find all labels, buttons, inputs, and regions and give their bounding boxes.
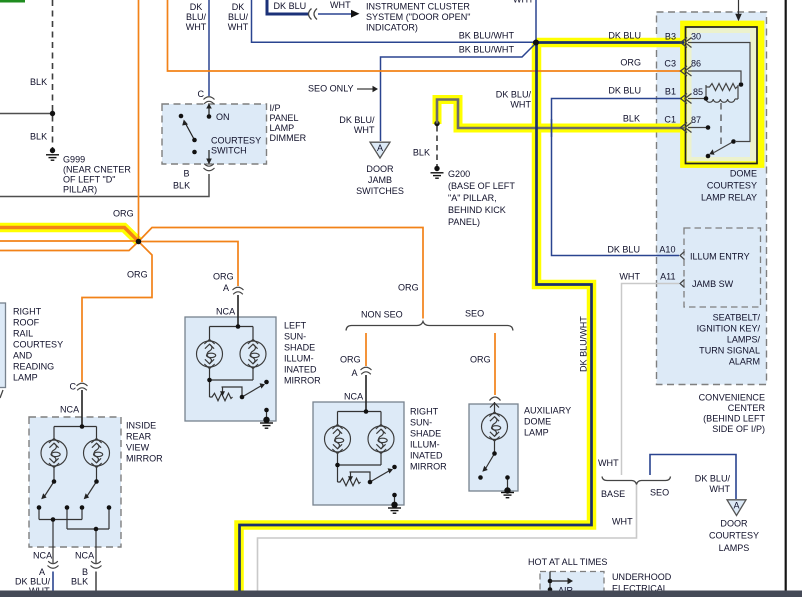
svg-text:WHT: WHT	[598, 458, 619, 468]
wire B1 overdraw at yellow crossing	[551, 119, 553, 137]
svg-text:DOOR: DOOR	[720, 519, 748, 529]
svg-text:INDICATOR): INDICATOR)	[366, 23, 418, 33]
svg-text:A10: A10	[659, 245, 675, 255]
svg-text:WHT: WHT	[228, 22, 249, 32]
svg-text:NON SEO: NON SEO	[361, 310, 403, 320]
svg-text:SHADE: SHADE	[410, 429, 441, 439]
inside mirror: contact drops	[38, 509, 40, 520]
svg-text:COURTESY: COURTESY	[211, 136, 261, 146]
svg-text:B: B	[82, 567, 88, 577]
svg-text:LEFT: LEFT	[284, 321, 307, 331]
svg-text:SYSTEM ("DOOR OPEN": SYSTEM ("DOOR OPEN"	[366, 12, 470, 22]
svg-text:RIGHT: RIGHT	[410, 407, 439, 417]
svg-text:LAMPS/: LAMPS/	[727, 335, 761, 345]
right roof rail lamp box (cut at left edge)	[0, 303, 6, 388]
inside mirror: lamp stems	[53, 467, 55, 482]
svg-text:NCA: NCA	[60, 405, 80, 415]
svg-text:SWITCHES: SWITCHES	[356, 186, 404, 196]
svg-text:UNDERHOOD: UNDERHOOD	[612, 572, 672, 582]
courtesy switch: pivot dots	[192, 138, 197, 143]
relay highlight yellow box	[684, 24, 762, 165]
NCA wire connector C into inside mirror box	[81, 390, 83, 426]
svg-text:LAMP: LAMP	[270, 123, 295, 133]
svg-text:A11: A11	[660, 272, 675, 282]
left sun-shade mirror box	[185, 317, 276, 421]
courtesy switch: movable arm	[186, 124, 195, 141]
svg-text:INATED: INATED	[410, 451, 443, 461]
svg-text:TURN SIGNAL: TURN SIGNAL	[699, 346, 760, 356]
relay pin chevron B3	[681, 38, 692, 48]
svg-text:C: C	[69, 382, 76, 392]
door jamb switches triangle A	[370, 142, 390, 158]
svg-text:WHT: WHT	[513, 0, 534, 5]
BK BLU/WHT wire top edge to junction	[252, 0, 537, 42]
jamb sw pin chevron A11	[680, 280, 685, 288]
inside mirror: feed junction	[54, 426, 97, 428]
svg-text:INSTRUMENT CLUSTER: INSTRUMENT CLUSTER	[366, 2, 470, 12]
svg-text:(NEAR CNETER: (NEAR CNETER	[63, 165, 131, 175]
ORG wire top edge to relay pin C3	[168, 0, 683, 71]
BLK wire inside mirror NCA B to bottom	[95, 572, 97, 592]
illum entry pin chevron A10	[680, 252, 685, 260]
svg-text:DK BLU/: DK BLU/	[339, 115, 375, 125]
svg-text:ALARM: ALARM	[729, 357, 760, 367]
svg-text:DOOR: DOOR	[366, 164, 394, 174]
convenience center dashed box	[657, 12, 767, 385]
orange core of highlighted wire	[0, 228, 139, 242]
thick DK BLU wire to instrument cluster	[267, 0, 308, 14]
WHT wire base branch to bottom edge	[258, 485, 637, 597]
svg-text:SEO: SEO	[465, 309, 484, 319]
svg-text:85: 85	[693, 87, 703, 97]
BLK wire left edge to G999 splice	[0, 113, 53, 115]
ORG wire left edge low to junction	[0, 242, 139, 251]
BLK dashed wire splice to G200	[436, 126, 438, 166]
svg-text:A: A	[733, 501, 740, 511]
svg-text:ORG: ORG	[470, 355, 491, 365]
bottom window bar	[0, 591, 802, 597]
svg-text:LAMP: LAMP	[524, 428, 549, 438]
inside mirror: arm arrowheads	[41, 493, 46, 499]
svg-text:DK BLU/WHT: DK BLU/WHT	[579, 316, 589, 372]
highlight band: DK BLU/WHT main vertical run	[239, 43, 592, 597]
connector B below courtesy switch	[204, 164, 215, 171]
ORG wire junction to non-seo/seo brace	[139, 228, 424, 319]
connector C at courtesy switch	[204, 97, 215, 104]
svg-text:SIDE OF I/P): SIDE OF I/P)	[712, 424, 765, 434]
inside mirror: left lamp	[41, 438, 67, 467]
underhood electrical dashed box	[540, 572, 604, 597]
svg-text:DK BLU: DK BLU	[608, 31, 641, 41]
arrow into instrument cluster system	[351, 10, 360, 18]
svg-text:BLK: BLK	[71, 577, 88, 587]
svg-text:LAMPS: LAMPS	[719, 543, 750, 553]
BK BLU/WHT wire junction to door jamb switches	[381, 43, 537, 141]
connector at aux dome lamp	[490, 397, 501, 401]
WHT wire top edge stub above junction	[535, 0, 537, 40]
seo only arrow	[357, 88, 373, 90]
svg-text:NCA: NCA	[75, 551, 95, 561]
svg-text:ON: ON	[216, 112, 230, 122]
courtesy switch: ON arrow	[208, 107, 210, 116]
inside mirror: connector NCA B	[91, 561, 102, 568]
svg-text:CONVENIENCE: CONVENIENCE	[699, 393, 765, 403]
svg-text:A: A	[223, 283, 230, 293]
courtesy switch: wire to B with arrow	[208, 150, 210, 162]
svg-text:BEHIND KICK: BEHIND KICK	[448, 205, 506, 215]
courtesy switch: ON contact dot	[207, 114, 212, 119]
svg-text:A: A	[351, 368, 358, 378]
node splice on G999 wire	[50, 111, 55, 116]
svg-text:BLK: BLK	[30, 77, 47, 87]
svg-text:ILLUM-: ILLUM-	[284, 354, 314, 364]
relay arm arrowhead	[709, 149, 714, 155]
G200 ground	[434, 166, 439, 171]
relay top entry wire with arrow	[738, 0, 740, 15]
inside mirror: right lamp	[84, 438, 110, 467]
svg-text:CENTER: CENTER	[728, 403, 766, 413]
svg-text:DOME: DOME	[730, 169, 757, 179]
svg-text:BLK: BLK	[623, 114, 640, 124]
relay highlight yellow box redraw over blue fill	[684, 24, 762, 165]
svg-text:AND: AND	[13, 351, 33, 361]
ORG wire junction to inside mirror connector C	[82, 242, 152, 383]
svg-text:SWITCH: SWITCH	[211, 146, 247, 156]
svg-text:COURTESY: COURTESY	[707, 181, 757, 191]
svg-text:ORG: ORG	[620, 58, 641, 68]
svg-text:G200: G200	[448, 169, 470, 179]
svg-text:IGNITION KEY/: IGNITION KEY/	[697, 324, 761, 334]
svg-text:WHT: WHT	[186, 22, 207, 32]
svg-text:SEO ONLY: SEO ONLY	[308, 84, 354, 94]
connector A to left sun-shade	[233, 287, 244, 294]
door courtesy lamps triangle A	[727, 500, 746, 516]
ORG wire junction to left sun-shade connector A	[139, 242, 239, 287]
WHT wire jamb sw A11 to base/seo brace	[622, 284, 680, 476]
svg-text:OF LEFT "D": OF LEFT "D"	[63, 175, 116, 185]
svg-text:ILLUM-: ILLUM-	[410, 440, 440, 450]
svg-text:BLK: BLK	[30, 132, 47, 142]
svg-text:RIGHT: RIGHT	[13, 307, 42, 317]
svg-text:DOME: DOME	[524, 417, 551, 427]
splice dot on G200 wire	[434, 121, 439, 126]
svg-text:(BASE OF LEFT: (BASE OF LEFT	[448, 181, 515, 191]
svg-text:JAMB: JAMB	[368, 175, 392, 185]
svg-text:DK: DK	[190, 2, 203, 12]
ORG wire junction up to top edge	[138, 0, 140, 242]
relay coil terminal dots	[739, 82, 744, 87]
svg-text:MIRROR: MIRROR	[284, 376, 321, 386]
svg-text:LAMP: LAMP	[13, 373, 38, 383]
svg-text:ILLUM ENTRY: ILLUM ENTRY	[690, 252, 750, 262]
svg-text:INSIDE: INSIDE	[126, 421, 156, 431]
svg-text:NCA: NCA	[344, 392, 364, 402]
svg-text:SEATBELT/: SEATBELT/	[713, 313, 761, 323]
brace base/seo	[602, 477, 671, 485]
inside mirror: junction dot	[80, 424, 85, 429]
svg-text:AUXILIARY: AUXILIARY	[524, 406, 571, 416]
NCA wire into right sun-shade box	[365, 375, 367, 412]
brace non-seo/seo	[346, 322, 513, 331]
NCA wire connector A into left sun-shade box	[237, 295, 239, 326]
svg-text:B1: B1	[665, 87, 676, 97]
svg-text:ROOF: ROOF	[13, 318, 40, 328]
svg-text:BK BLU/WHT: BK BLU/WHT	[459, 45, 515, 55]
svg-text:87: 87	[691, 115, 701, 125]
svg-text:HOT AT ALL TIMES: HOT AT ALL TIMES	[528, 557, 607, 567]
svg-text:30: 30	[691, 32, 701, 42]
svg-text:RAIL: RAIL	[13, 329, 33, 339]
right sun-shade mirror box	[313, 402, 404, 505]
ORG wire brace to non-seo connector A	[365, 333, 367, 366]
svg-text:PANEL): PANEL)	[448, 217, 480, 227]
auxiliary dome lamp box	[469, 404, 518, 491]
svg-text:PILLAR): PILLAR)	[63, 185, 97, 195]
highlight band: BLK wire G200 to relay pin C1	[437, 100, 682, 129]
relay pin chevron C1	[681, 123, 692, 133]
BLK wire courtesy switch B to left edge	[0, 174, 209, 197]
svg-text:DK BLU/: DK BLU/	[695, 474, 731, 484]
G999 ground	[50, 148, 55, 153]
svg-text:WHT: WHT	[510, 100, 531, 110]
svg-text:BLU/: BLU/	[228, 12, 249, 22]
underhood electrical internals	[549, 572, 551, 591]
inside mirror: connector NCA A	[48, 561, 59, 568]
DK BLU/WHT wire seo to door courtesy lamps	[650, 455, 736, 500]
svg-text:SHADE: SHADE	[284, 343, 315, 353]
highlight band: DK BLU wire junction to relay pin B3	[536, 38, 682, 48]
svg-text:I/P: I/P	[270, 103, 281, 113]
svg-text:WHT: WHT	[612, 517, 633, 527]
svg-text:INATED: INATED	[284, 365, 317, 375]
DK BLU/WHT wire inside mirror NCA A to bottom	[52, 572, 54, 592]
svg-text:BK BLU/WHT: BK BLU/WHT	[459, 31, 515, 41]
svg-text:86: 86	[691, 59, 701, 69]
inside mirror: pivot and contact dots	[52, 479, 57, 484]
svg-text:LAMP RELAY: LAMP RELAY	[701, 193, 757, 203]
courtesy switch: left contact dot	[179, 114, 184, 119]
ORG wire left edge mid to junction	[0, 240, 139, 242]
inside rear view mirror dashed box	[29, 417, 121, 547]
svg-text:COURTESY: COURTESY	[709, 531, 759, 541]
svg-text:ORG: ORG	[127, 270, 148, 280]
svg-text:G999: G999	[63, 155, 85, 165]
svg-text:BLK: BLK	[173, 181, 190, 191]
svg-text:WHT: WHT	[354, 125, 375, 135]
inside mirror: switch arms	[44, 482, 54, 498]
svg-text:MIRROR: MIRROR	[126, 454, 163, 464]
svg-text:(BEHIND LEFT: (BEHIND LEFT	[703, 414, 765, 424]
relay pin chevron C3	[681, 66, 692, 76]
svg-text:BLK: BLK	[413, 148, 430, 158]
svg-text:DK BLU: DK BLU	[608, 86, 641, 96]
relay pin chevron B1	[681, 94, 692, 104]
svg-text:DK BLU/: DK BLU/	[15, 577, 51, 587]
svg-text:B3: B3	[665, 32, 676, 42]
svg-text:B: B	[184, 169, 190, 179]
svg-text:"A" PILLAR,: "A" PILLAR,	[448, 193, 497, 203]
gray core: BLK wire G200 splice to relay C1	[437, 100, 684, 129]
connector A to right sun-shade	[361, 367, 372, 374]
svg-text:MIRROR: MIRROR	[410, 462, 447, 472]
svg-text:SUN-: SUN-	[284, 332, 306, 342]
svg-text:SEO: SEO	[650, 488, 669, 498]
svg-text:COURTESY: COURTESY	[13, 340, 63, 350]
svg-text:DK BLU: DK BLU	[607, 245, 640, 255]
aux dome lamp internals	[485, 402, 508, 488]
navy core: DK BLU/WHT main vertical run	[240, 40, 592, 597]
green wire stub top left	[0, 0, 25, 3]
instrument cluster inline connector	[309, 9, 312, 20]
svg-text:JAMB SW: JAMB SW	[692, 279, 734, 289]
left sun-shade mirror internals	[197, 324, 274, 428]
right sun-shade mirror internals	[325, 409, 402, 513]
svg-text:ORG: ORG	[113, 209, 134, 219]
svg-text:REAR: REAR	[126, 432, 152, 442]
junction node top right	[533, 40, 539, 46]
illum entry / jamb sw inner dashed box	[684, 228, 761, 307]
dome courtesy lamp relay outline	[686, 27, 758, 164]
connector C to inside mirror	[77, 383, 88, 390]
svg-text:READING: READING	[13, 362, 54, 372]
svg-text:BLU/: BLU/	[186, 12, 207, 22]
svg-text:ORG: ORG	[213, 272, 234, 282]
svg-text:SUN-: SUN-	[410, 418, 432, 428]
svg-text:C3: C3	[664, 59, 676, 69]
svg-text:DIMMER: DIMMER	[270, 133, 307, 143]
svg-text:DK BLU: DK BLU	[274, 1, 307, 11]
svg-text:PANEL: PANEL	[270, 113, 299, 123]
svg-text:A: A	[377, 143, 384, 153]
relay contact dots	[706, 125, 711, 130]
highlight band: orange wire from left edge to junction	[0, 228, 139, 242]
svg-text:VIEW: VIEW	[126, 443, 150, 453]
relay internal wiring	[688, 43, 750, 153]
DK BLU wire relay pin B1 to illum entry A10	[552, 99, 683, 256]
svg-text:ORG: ORG	[398, 283, 419, 293]
roof rail box ground stub cut at edge	[0, 390, 3, 398]
svg-text:WHT: WHT	[709, 484, 730, 494]
svg-text:C: C	[197, 89, 204, 99]
relay inner blue area	[692, 33, 751, 157]
navy core: DK BLU junction to relay B3	[533, 41, 684, 44]
svg-text:A: A	[39, 567, 46, 577]
junction node dot	[136, 239, 142, 245]
svg-text:BASE: BASE	[601, 489, 625, 499]
svg-text:WHT: WHT	[330, 0, 351, 10]
DK BLU/WHT wire top edge to courtesy switch C	[208, 0, 210, 96]
svg-text:NCA: NCA	[33, 551, 53, 561]
svg-text:ORG: ORG	[340, 355, 361, 365]
svg-text:WHT: WHT	[619, 272, 640, 282]
svg-text:DK: DK	[232, 2, 245, 12]
courtesy switch dashed box	[162, 104, 267, 164]
svg-text:DK BLU/: DK BLU/	[496, 90, 532, 100]
BLK dashed wire to G999	[52, 0, 54, 148]
WHT wire connector to instrument cluster arrow	[318, 13, 352, 15]
svg-text:C1: C1	[664, 115, 676, 125]
ORG wire brace to auxiliary dome lamp	[494, 333, 496, 395]
svg-text:NCA: NCA	[216, 307, 236, 317]
frame right border	[785, 0, 787, 591]
